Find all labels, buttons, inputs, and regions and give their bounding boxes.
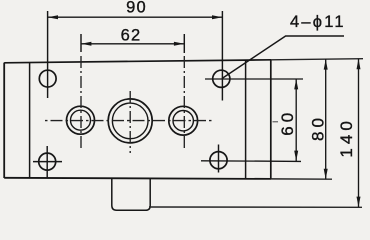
- 140 arrow top: [357, 59, 361, 69]
- plate bottom edge with right extension line: [4, 178, 271, 179]
- hole bottom-left: [39, 153, 56, 170]
- port circle center outer: [108, 99, 152, 143]
- 90 dimension line: [48, 16, 223, 18]
- plate left edge: [3, 63, 5, 178]
- left port vertical centerline: [80, 56, 82, 150]
- bottom tab: [112, 178, 150, 210]
- 62 arrow right: [174, 42, 184, 46]
- 60 arrow bottom: [294, 151, 298, 161]
- tab bottom extension line to 140 dim: [149, 206, 362, 208]
- 90 arrow left: [48, 15, 58, 19]
- 62-dim left extension line: [80, 34, 82, 52]
- port circle left inner: [71, 110, 91, 130]
- hole top-left: [39, 70, 56, 87]
- 90-dim left extension line through TL hole: [47, 11, 49, 98]
- 60 dimension line: [295, 79, 297, 161]
- hole bottom-right: [210, 152, 227, 169]
- svg-text:4–ϕ11: 4–ϕ11: [290, 13, 346, 31]
- 80 arrow top: [324, 59, 328, 69]
- 62-dim right extension line: [183, 34, 185, 53]
- 60 arrow top: [294, 79, 298, 89]
- svg-text:80: 80: [309, 114, 328, 141]
- 140 dimension line: [358, 59, 360, 207]
- 62 dimension line: [81, 43, 184, 45]
- crosshair hole bottom-left vertical: [46, 146, 48, 178]
- 80 arrow bottom: [324, 169, 328, 179]
- port circle right outer: [169, 106, 198, 135]
- center port vertical centerline: [129, 91, 131, 153]
- port circle right inner: [173, 111, 193, 131]
- port circle center inner: [112, 103, 148, 139]
- svg-text:140: 140: [337, 117, 356, 157]
- svg-text:62: 62: [121, 26, 142, 44]
- left step line: [29, 63, 31, 179]
- crosshair hole bottom-right horizontal / 60-dim bottom extension: [201, 160, 301, 163]
- right step line: [245, 60, 247, 179]
- crosshair hole bottom-right vertical: [218, 145, 220, 173]
- crosshair hole bottom-left horizontal: [33, 161, 62, 163]
- port circle left outer: [67, 106, 95, 134]
- centerline stray dash right: [273, 121, 279, 123]
- leader line for 4-dia11: [222, 36, 344, 79]
- 90 arrow right: [212, 15, 222, 19]
- hole top-right: [213, 70, 230, 87]
- plate right edge: [270, 60, 272, 179]
- right port vertical centerline: [183, 56, 185, 148]
- 62 arrow left: [81, 42, 91, 46]
- 140 arrow bottom: [357, 197, 361, 207]
- crosshair hole top-right horizontal / 60-dim top extension: [205, 78, 303, 80]
- svg-text:90: 90: [126, 0, 147, 17]
- 80 dimension line: [325, 59, 327, 179]
- svg-text:60: 60: [278, 109, 297, 136]
- plate top edge with right extension line: [4, 60, 271, 63]
- 90-dim right extension line through TR hole: [221, 11, 223, 101]
- main horizontal centerline: [45, 120, 215, 122]
